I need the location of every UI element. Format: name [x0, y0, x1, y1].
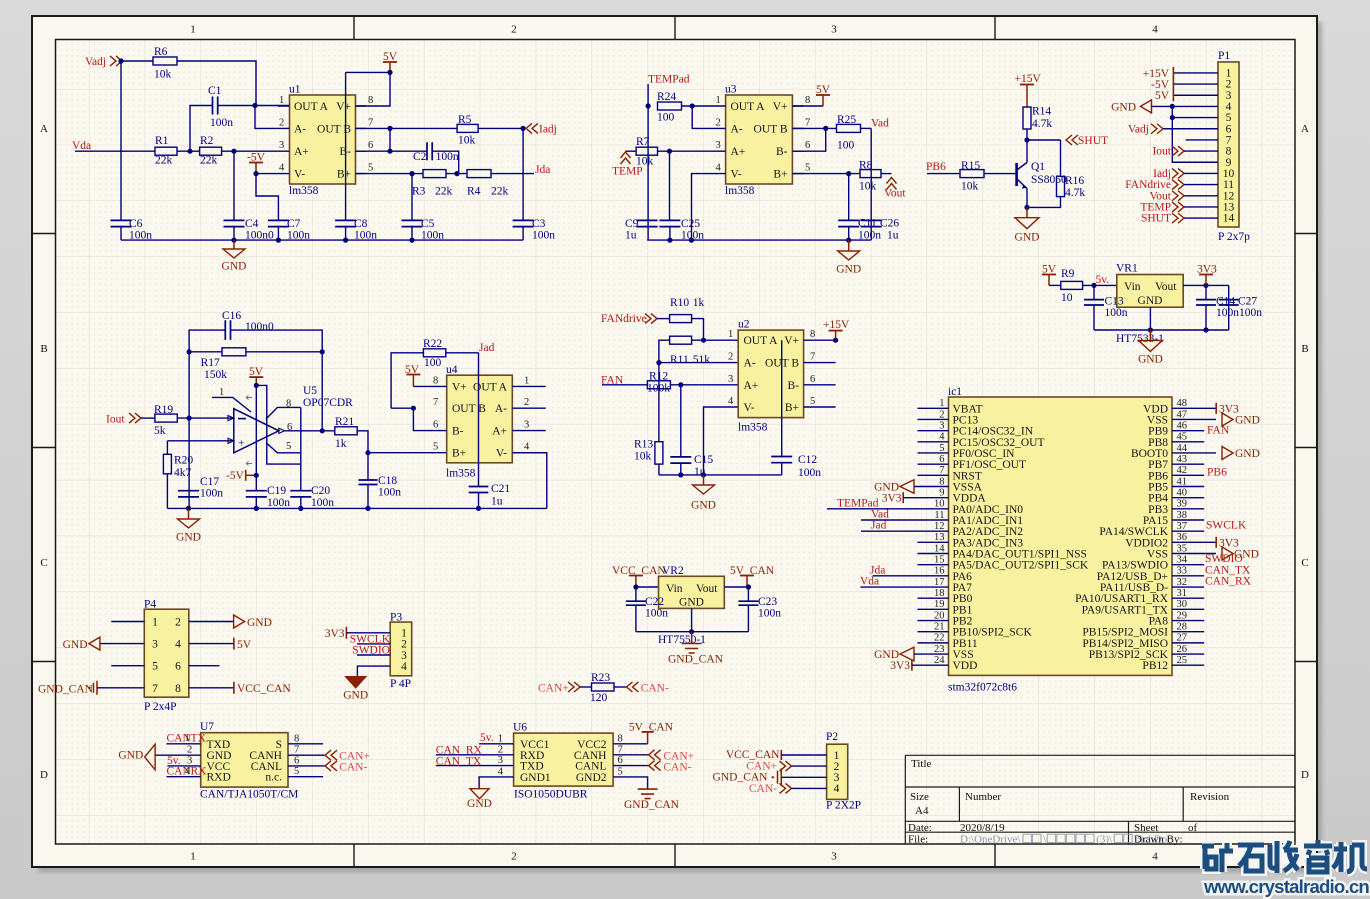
- node R17 left: [187, 349, 192, 354]
- port Vout: [887, 178, 897, 190]
- svg-text:GND_CAN: GND_CAN: [624, 799, 680, 811]
- svg-text:OUT A: OUT A: [294, 101, 329, 113]
- gnd rail B3: [659, 474, 782, 476]
- svg-text:2: 2: [716, 117, 721, 128]
- wire VR1 gnd pin: [1149, 307, 1151, 330]
- svg-text:B: B: [40, 343, 47, 355]
- svg-text:2: 2: [175, 617, 181, 629]
- port FANdrive: [645, 314, 657, 324]
- capacitor C16 loop: [189, 330, 225, 352]
- svg-text:1: 1: [939, 398, 944, 409]
- capacitor C27: [1228, 285, 1230, 330]
- svg-text:R23: R23: [591, 672, 610, 684]
- wire R22 to Jad: [446, 352, 479, 354]
- svg-text:V+: V+: [773, 101, 788, 113]
- svg-text:+15V: +15V: [1015, 73, 1042, 85]
- svg-text:lm358: lm358: [289, 185, 319, 197]
- svg-text:100n0: 100n0: [245, 321, 274, 333]
- wire C1 to pin1 node: [218, 105, 290, 107]
- svg-text:C21: C21: [491, 483, 510, 495]
- wire feedback right vertical: [321, 352, 323, 431]
- svg-text:A4: A4: [915, 805, 929, 817]
- svg-text:8: 8: [433, 375, 438, 386]
- gnd rail A1: [121, 239, 523, 241]
- svg-text:P1: P1: [1218, 50, 1230, 62]
- svg-text:22: 22: [934, 633, 945, 644]
- svg-text:30: 30: [1177, 599, 1188, 610]
- svg-text:5V: 5V: [1155, 90, 1170, 102]
- port TEMP: [621, 152, 631, 164]
- svg-text:37: 37: [1177, 521, 1188, 532]
- svg-text:R21: R21: [335, 416, 354, 428]
- svg-text:C27: C27: [1238, 296, 1257, 308]
- svg-text:OUT A: OUT A: [744, 335, 779, 347]
- wire pin5 to R3: [356, 173, 424, 175]
- svg-text:5: 5: [294, 766, 299, 777]
- svg-text:3: 3: [728, 374, 733, 385]
- svg-text:6: 6: [433, 420, 438, 431]
- svg-text:3: 3: [498, 755, 503, 766]
- ic1 pin48 3V3: [1172, 407, 1216, 409]
- capacitor C15: [670, 457, 691, 463]
- svg-text:P 2X2P: P 2X2P: [826, 800, 861, 812]
- svg-text:U5: U5: [303, 385, 317, 397]
- svg-text:V-: V-: [294, 169, 305, 181]
- transceiver U7: [201, 733, 288, 787]
- svg-text:CAN-: CAN-: [749, 783, 777, 795]
- svg-text:V+: V+: [452, 381, 467, 393]
- capacitor C13: [1093, 285, 1095, 299]
- wire C25 vertical: [669, 151, 671, 220]
- svg-text:Size: Size: [910, 791, 929, 803]
- resistor R12: [647, 381, 670, 389]
- svg-text:GND: GND: [874, 481, 899, 493]
- svg-text:3V3: 3V3: [325, 628, 345, 640]
- svg-text:1: 1: [219, 387, 224, 398]
- svg-text:12: 12: [934, 521, 945, 532]
- svg-text:7: 7: [294, 745, 299, 756]
- svg-text:5V: 5V: [237, 639, 252, 651]
- capacitor C1: [213, 97, 218, 115]
- svg-text:GND: GND: [1138, 354, 1163, 366]
- svg-text:35: 35: [1177, 543, 1188, 554]
- svg-text:B+: B+: [337, 169, 351, 181]
- svg-text:Revision: Revision: [1190, 791, 1230, 803]
- wire pin4 u2: [704, 407, 739, 475]
- svg-text:44: 44: [1177, 443, 1188, 454]
- svg-text:Drawn By:: Drawn By:: [1134, 833, 1183, 845]
- svg-text:100n: 100n: [1239, 307, 1262, 319]
- svg-text:CAN_RX: CAN_RX: [1205, 576, 1252, 588]
- wire R14 to collector: [1026, 129, 1028, 140]
- svg-text:2: 2: [498, 744, 503, 755]
- port SHUT: [1066, 135, 1078, 145]
- connector P4: [144, 609, 189, 697]
- svg-text:B-: B-: [452, 426, 464, 438]
- svg-text:8: 8: [294, 733, 299, 744]
- P4 pin5 wire: [111, 665, 144, 667]
- op-amp u4: [447, 375, 513, 463]
- svg-text:8: 8: [805, 95, 810, 106]
- svg-text:C2: C2: [413, 151, 427, 163]
- svg-text:GND: GND: [836, 264, 861, 276]
- resistor R22: [423, 349, 445, 357]
- svg-text:2: 2: [524, 397, 529, 408]
- svg-text:R20: R20: [174, 455, 193, 467]
- svg-text:4: 4: [524, 442, 530, 453]
- svg-text:P3: P3: [390, 611, 402, 623]
- svg-text:A-: A-: [731, 123, 743, 135]
- svg-text:4k7: 4k7: [174, 467, 192, 479]
- wire R7 to pin3: [658, 150, 715, 152]
- svg-text:4: 4: [401, 661, 407, 673]
- wire pin7 u3: [792, 127, 836, 129]
- resistor R10: [670, 315, 692, 323]
- wire R9 to Vin: [1083, 284, 1117, 286]
- wire R25 to Vad: [861, 127, 872, 129]
- P1 pin5 wire: [1172, 117, 1218, 119]
- wire R4 to Jda: [491, 173, 534, 175]
- P3 pin4 wire: [357, 666, 390, 677]
- svg-text:32: 32: [1177, 577, 1188, 588]
- svg-text:33: 33: [1177, 566, 1188, 577]
- svg-text:4: 4: [279, 163, 285, 174]
- svg-text:5v.: 5v.: [1096, 274, 1110, 286]
- svg-text:GND_CAN: GND_CAN: [38, 683, 94, 695]
- svg-text:CAN-: CAN-: [663, 761, 691, 773]
- P1 pin7 wire: [1186, 139, 1218, 141]
- svg-text:P 2x7p: P 2x7p: [1218, 231, 1250, 243]
- capacitor C11: [838, 220, 859, 226]
- svg-text:16: 16: [934, 566, 945, 577]
- wire pin7-pin6 u3: [792, 128, 825, 151]
- node pin7: [387, 126, 392, 131]
- node C5 tap: [409, 171, 414, 176]
- svg-text:D: D: [40, 769, 48, 781]
- capacitor C9: [637, 220, 658, 226]
- svg-text:100k: 100k: [647, 383, 670, 395]
- resistor R5: [457, 124, 478, 132]
- capacitor C5: [402, 220, 423, 226]
- op-amp U5: [234, 409, 279, 453]
- node 5V: [387, 70, 392, 75]
- svg-text:15: 15: [934, 554, 945, 565]
- svg-text:4: 4: [834, 783, 840, 795]
- svg-text:31: 31: [1177, 588, 1188, 599]
- svg-text:Vadj: Vadj: [1128, 123, 1149, 135]
- svg-text:lm358: lm358: [725, 185, 755, 197]
- svg-text:100n: 100n: [532, 229, 555, 241]
- svg-text:4.7k: 4.7k: [1065, 187, 1085, 199]
- svg-text:C8: C8: [354, 218, 368, 230]
- capacitor C12: [771, 457, 792, 463]
- svg-text:45: 45: [1177, 432, 1188, 443]
- svg-text:1: 1: [498, 733, 503, 744]
- svg-text:1: 1: [716, 95, 721, 106]
- svg-text:38: 38: [1177, 510, 1188, 521]
- svg-text:Jda: Jda: [535, 164, 550, 176]
- regulator VR2: [659, 576, 725, 608]
- svg-text:Vda: Vda: [860, 576, 879, 588]
- node pin2 u2: [656, 360, 661, 365]
- node OUT B u4: [411, 406, 416, 411]
- P3 pin2 wire: [357, 643, 390, 645]
- wire R6 to pin1: [177, 61, 256, 106]
- node C15 tap: [678, 382, 683, 387]
- svg-text:TX: TX: [191, 733, 207, 745]
- svg-text:OUT A: OUT A: [731, 101, 766, 113]
- node Vadj junction: [118, 58, 123, 63]
- wire C1 left leg: [190, 106, 213, 152]
- svg-text:PA5/DAC_OUT2/SPI1_SCK: PA5/DAC_OUT2/SPI1_SCK: [953, 560, 1089, 572]
- svg-text:6: 6: [939, 454, 944, 465]
- svg-text:5: 5: [618, 766, 623, 777]
- svg-text:C: C: [1301, 557, 1308, 569]
- svg-text:100n: 100n: [1216, 307, 1239, 319]
- svg-text:3: 3: [524, 420, 529, 431]
- node R2/C4: [231, 149, 236, 154]
- resistor R7: [636, 147, 657, 155]
- wire pin2 u2: [659, 362, 738, 364]
- svg-text:1u: 1u: [887, 229, 899, 241]
- svg-text:3: 3: [279, 140, 284, 151]
- port CAN- (R23): [627, 682, 639, 692]
- ground symbol VR1: [1149, 330, 1151, 340]
- svg-text:C25: C25: [681, 218, 700, 230]
- svg-text:120: 120: [590, 692, 608, 704]
- svg-text:V+: V+: [336, 101, 351, 113]
- svg-text:GND: GND: [118, 750, 143, 762]
- op-amp u3: [726, 95, 793, 184]
- svg-text:C22: C22: [645, 596, 664, 608]
- wire 5V to pin8 u3: [792, 105, 823, 107]
- svg-text:C13: C13: [1105, 296, 1124, 308]
- svg-text:C26: C26: [880, 218, 899, 230]
- wire R15 to Q1 base: [984, 173, 1016, 175]
- svg-text:4.7k: 4.7k: [1032, 118, 1052, 130]
- svg-text:23: 23: [934, 644, 945, 655]
- svg-text:22k: 22k: [435, 186, 453, 198]
- svg-text:stm32f072c8t6: stm32f072c8t6: [948, 682, 1017, 694]
- wire pin8/5 vertical: [300, 407, 302, 490]
- svg-text:P4: P4: [144, 599, 156, 611]
- svg-text:Iout: Iout: [1152, 146, 1171, 158]
- svg-text:Vout: Vout: [1155, 281, 1177, 293]
- svg-text:TXD: TXD: [520, 761, 544, 773]
- svg-text:28: 28: [1177, 622, 1188, 633]
- wire R16 to emitter: [1027, 197, 1061, 208]
- svg-text:100n: 100n: [210, 117, 233, 129]
- svg-text:R6: R6: [154, 46, 168, 58]
- svg-text:VR1: VR1: [1116, 263, 1138, 275]
- svg-text:V-: V-: [496, 448, 507, 460]
- svg-text:10k: 10k: [859, 181, 877, 193]
- node R1/R2/C1: [187, 149, 192, 154]
- svg-text:22k: 22k: [200, 154, 218, 166]
- gnd rail A2: [647, 239, 871, 241]
- svg-text:1: 1: [152, 617, 158, 629]
- svg-text:4: 4: [175, 639, 181, 651]
- wire feedback left vertical: [188, 352, 190, 509]
- svg-text:GND: GND: [691, 500, 716, 512]
- svg-text:P 4P: P 4P: [390, 678, 411, 690]
- svg-text:R9: R9: [1061, 268, 1075, 280]
- capacitor C4: [224, 220, 245, 226]
- svg-text:V-: V-: [744, 402, 755, 414]
- svg-text:u4: u4: [446, 364, 458, 376]
- node R21 in: [320, 428, 325, 433]
- wire pin1 to pin2 u3: [692, 106, 714, 128]
- ic1 pin44 GND: [1172, 452, 1216, 454]
- svg-text:PB12: PB12: [1142, 660, 1168, 672]
- svg-text:39: 39: [1177, 499, 1188, 510]
- connector P1: [1218, 62, 1239, 227]
- svg-text:14: 14: [934, 543, 945, 554]
- svg-text:Jad: Jad: [871, 520, 887, 532]
- svg-text:SWCLK: SWCLK: [1206, 520, 1247, 532]
- ic1 right pin stubs: [1172, 430, 1204, 432]
- svg-text:14: 14: [1223, 213, 1235, 225]
- wire R1-R2: [177, 150, 200, 152]
- svg-text:VDD: VDD: [953, 660, 978, 672]
- node pin6: [387, 149, 392, 154]
- svg-text:C1: C1: [208, 85, 222, 97]
- svg-text:TXD: TXD: [207, 739, 231, 751]
- gnd rail B1: [167, 507, 546, 509]
- wire R24 to pin1: [682, 105, 715, 107]
- svg-text:1: 1: [728, 329, 733, 340]
- transistor Q1: [1015, 163, 1018, 186]
- svg-text:R12: R12: [649, 371, 668, 383]
- svg-text:21: 21: [934, 622, 945, 633]
- resistor R11: [670, 336, 692, 344]
- node Vin VR2: [633, 584, 638, 589]
- svg-text:P2: P2: [826, 731, 838, 743]
- svg-text:Vout: Vout: [696, 583, 718, 595]
- gnd rail VR2: [636, 631, 749, 633]
- svg-text:u3: u3: [725, 84, 737, 96]
- svg-text:3: 3: [152, 639, 158, 651]
- svg-text:SHUT: SHUT: [1141, 213, 1171, 225]
- svg-text:GND: GND: [1111, 102, 1136, 114]
- wire R10 to pin1: [692, 319, 704, 341]
- wire R23 to CAN-: [614, 686, 627, 688]
- wire FANdrive to R10: [657, 318, 670, 320]
- svg-text:22k: 22k: [491, 186, 509, 198]
- svg-text:B-: B-: [788, 380, 800, 392]
- svg-text:100n: 100n: [758, 608, 781, 620]
- svg-text:3: 3: [831, 851, 837, 863]
- U5 output wire: [279, 428, 285, 433]
- wire u4 pin4: [512, 453, 547, 509]
- node emitter: [1024, 205, 1029, 210]
- svg-text:8: 8: [175, 683, 181, 695]
- svg-text:100: 100: [424, 357, 442, 369]
- wire 5V to pin8: [356, 72, 391, 106]
- svg-text:R22: R22: [423, 338, 442, 350]
- wire Vadj vertical to C6: [120, 61, 122, 220]
- svg-text:8: 8: [618, 733, 623, 744]
- svg-text:5: 5: [810, 396, 815, 407]
- svg-text:RX: RX: [191, 766, 208, 778]
- wire to SHUT: [1027, 139, 1061, 141]
- wire Jad vertical through u4: [478, 353, 480, 487]
- svg-text:SHUT: SHUT: [1078, 135, 1108, 147]
- P4 pin1 wire: [111, 621, 144, 623]
- node pin7 u3: [823, 126, 828, 131]
- svg-text:R17: R17: [201, 357, 220, 369]
- svg-text:Vad: Vad: [871, 118, 889, 130]
- svg-text:+: +: [238, 438, 245, 450]
- svg-text:GND: GND: [176, 532, 201, 544]
- svg-text:VR2: VR2: [662, 565, 684, 577]
- svg-text:C19: C19: [267, 485, 286, 497]
- ground symbol P3: [346, 677, 366, 688]
- node +15V u2: [833, 338, 838, 343]
- svg-text:19: 19: [934, 599, 945, 610]
- wire pin6 to C2: [356, 150, 428, 152]
- svg-text:A-: A-: [294, 123, 306, 135]
- svg-text:CAN-: CAN-: [641, 682, 669, 694]
- U5 pin3 wire: [167, 440, 233, 442]
- svg-text:S: S: [276, 739, 282, 751]
- svg-text:R1: R1: [155, 135, 169, 147]
- svg-text:GND: GND: [1235, 448, 1260, 460]
- svg-text:100n: 100n: [436, 151, 459, 163]
- U7 pin7 CAN+: [288, 754, 325, 756]
- svg-text:100n: 100n: [1105, 307, 1128, 319]
- svg-text:HT7533-1: HT7533-1: [1116, 333, 1164, 345]
- svg-text:GND: GND: [1138, 295, 1163, 307]
- wire R11 left to pin2: [659, 340, 670, 362]
- pin4 tiny arrow: [246, 462, 252, 466]
- resistor R25: [837, 124, 861, 132]
- ic1 left pin stubs: [918, 407, 949, 409]
- svg-text:100n: 100n: [378, 487, 401, 499]
- gnd bus P1: [1172, 106, 1218, 162]
- svg-text:5: 5: [433, 442, 438, 453]
- sheet shadow: [0, 0, 1, 1]
- U7 pin8 wire: [288, 743, 323, 745]
- svg-text:29: 29: [1177, 610, 1188, 621]
- op-amp u1: [290, 95, 356, 184]
- svg-text:R2: R2: [200, 135, 214, 147]
- capacitor C6: [111, 220, 132, 226]
- svg-text:C20: C20: [311, 485, 330, 497]
- svg-text:100n: 100n: [645, 608, 668, 620]
- resistor R14: [1023, 107, 1031, 129]
- title block: [905, 755, 1295, 844]
- svg-text:9: 9: [939, 487, 944, 498]
- resistor R6: [153, 57, 177, 65]
- capacitor C17: [178, 491, 199, 497]
- wire C15 vertical: [680, 385, 682, 457]
- svg-text:Iadj: Iadj: [539, 123, 557, 135]
- svg-text:GND_CAN: GND_CAN: [668, 654, 724, 666]
- zone border ticks: [353, 17, 355, 866]
- ic1 pin35 GND: [1172, 553, 1216, 555]
- svg-text:3V3: 3V3: [882, 493, 902, 505]
- svg-text:CANL: CANL: [575, 761, 606, 773]
- node C25 tap: [667, 149, 672, 154]
- wire -5V rail to C7: [256, 174, 278, 221]
- svg-text:R14: R14: [1032, 106, 1051, 118]
- wire R12 to pin3: [670, 384, 738, 386]
- svg-text:5v.: 5v.: [480, 732, 494, 744]
- svg-text:1u: 1u: [491, 496, 503, 508]
- svg-text:R5: R5: [458, 114, 472, 126]
- capacitor C2: [427, 142, 432, 160]
